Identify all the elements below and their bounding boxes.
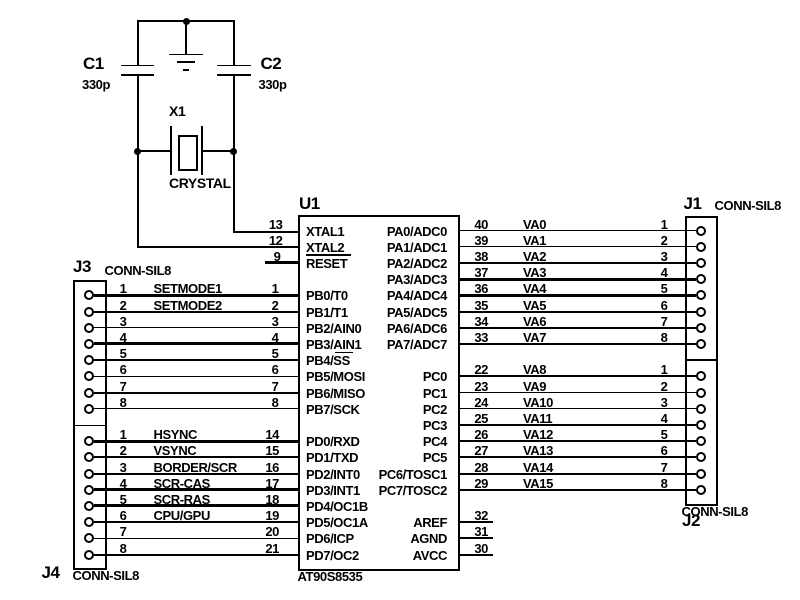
net label VA6 <box>523 315 546 328</box>
U1 pin number 7 <box>245 380 279 393</box>
J3 pin number 2 <box>93 299 127 312</box>
wire stub pin 30 <box>460 554 494 556</box>
U1 pin label PC2 <box>357 403 447 416</box>
wire J4 pin 3 to U1 pin 16 <box>94 473 298 475</box>
label C1 <box>83 55 104 72</box>
J2 pin number 7 <box>634 461 668 474</box>
wire J4 pin 2 to U1 pin 15 <box>94 456 298 458</box>
wire J4 pin 4 to U1 pin 17 <box>94 488 298 491</box>
U1 pin label PD4/OC1B <box>306 500 368 513</box>
U1 pin number 28 <box>454 461 488 474</box>
pin number 9 of U1 <box>247 250 281 263</box>
net label VA9 <box>523 380 546 393</box>
net label VA7 <box>523 331 546 344</box>
J3 pin circle 2 <box>84 307 94 317</box>
U1 pin number 19 <box>245 509 279 522</box>
wire U1 pin 25 to J2 pin 4 net VA11 <box>460 424 696 426</box>
J4 pin number 4 <box>93 477 127 490</box>
U1 pin label PD1/TXD <box>306 451 358 464</box>
U1 pin label PD6/ICP <box>306 532 354 545</box>
net label SETMODE2 <box>154 299 222 312</box>
J3 pin circle 8 <box>84 404 94 414</box>
U1 pin number 17 <box>245 477 279 490</box>
U1 pin label PB0/T0 <box>306 289 348 302</box>
J3 pin circle 4 <box>84 339 94 349</box>
net label VA11 <box>523 412 552 425</box>
wire J3 pin 8 to U1 pin 8 <box>94 408 298 409</box>
wire J4 pin 6 to U1 pin 19 <box>94 521 298 523</box>
wire stub pin 31 <box>460 537 494 539</box>
J1 pin number 2 <box>634 234 668 247</box>
wire C1 top <box>137 20 139 65</box>
U1 pin number 37 <box>454 266 488 279</box>
wire U1 pin 26 to J2 pin 5 net VA12 <box>460 440 696 442</box>
label J3 <box>73 258 91 275</box>
J2 pin number 4 <box>634 412 668 425</box>
type CONN-SIL8 of J1 <box>715 199 781 212</box>
wire XTAL1 horizontal to U1 pin 13 <box>233 231 299 233</box>
U1 pin number 4 <box>245 331 279 344</box>
U1 pin label PA5/ADC5 <box>357 306 447 319</box>
U1 pin number 26 <box>454 428 488 441</box>
net label SCR-CAS <box>154 477 210 490</box>
net label VA1 <box>523 234 546 247</box>
wire C2 top <box>233 20 235 65</box>
value 330p of C1 <box>82 78 110 91</box>
U1 pin label PD0/RXD <box>306 435 360 448</box>
J3 pin number 4 <box>93 331 127 344</box>
J1 pin number 1 <box>634 218 668 231</box>
U1 pin label PB5/MOSI <box>306 370 365 383</box>
J2 pin circle 7 <box>696 469 706 479</box>
type CONN-SIL8 of J4 <box>73 569 139 582</box>
J2 pin circle 3 <box>696 404 706 414</box>
value 330p of C2 <box>259 78 287 91</box>
J3/J4 divider <box>75 425 106 427</box>
ground bar 1 <box>169 54 203 56</box>
U1 pin label PB4/SS <box>306 354 350 367</box>
U1 pin label PC3 <box>357 419 447 432</box>
J2 pin circle 8 <box>696 485 706 495</box>
U1 pin number 22 <box>454 363 488 376</box>
U1 pin label PD3/INT1 <box>306 484 360 497</box>
wire J3 pin 5 to U1 pin 5 <box>94 359 298 361</box>
wire J4 pin 1 to U1 pin 14 <box>94 440 298 443</box>
wire J3 pin 2 to U1 pin 2 <box>94 311 298 313</box>
wire U1 pin 33 to J1 pin 8 net VA7 <box>460 343 696 345</box>
wire ground vertical <box>185 22 187 55</box>
J4 pin number 2 <box>93 444 127 457</box>
J2 pin circle 4 <box>696 420 706 430</box>
ground bar 2 <box>177 61 195 63</box>
wire top horizontal <box>137 20 236 22</box>
U1 pin label PB7/SCK <box>306 403 360 416</box>
wire J3 pin 4 to U1 pin 4 <box>94 342 298 345</box>
net label HSYNC <box>154 428 198 441</box>
J4 pin number 3 <box>93 461 127 474</box>
U1 pin label PC6/TOSC1 <box>357 468 447 481</box>
J2 pin number 6 <box>634 444 668 457</box>
U1 pin label PB2/AIN0 <box>306 322 361 335</box>
J1 pin circle 7 <box>696 323 706 333</box>
capacitor C2 plate top <box>217 65 251 66</box>
net label VA14 <box>523 461 553 474</box>
U1 pin number 38 <box>454 250 488 263</box>
wire J3 pin 7 to U1 pin 7 <box>94 392 298 394</box>
J1 pin number 4 <box>634 266 668 279</box>
wire U1 pin 22 to J2 pin 1 net VA8 <box>460 375 696 377</box>
J2 pin circle 2 <box>696 388 706 398</box>
crystal X1 left plate <box>170 126 172 175</box>
capacitor C2 plate bottom <box>217 74 251 76</box>
net label VA2 <box>523 250 546 263</box>
capacitor C1 plate bottom <box>121 74 155 76</box>
wire U1 pin 29 to J2 pin 8 net VA15 <box>460 489 696 491</box>
U1 pin label PD5/OC1A <box>306 516 368 529</box>
overline for RESET <box>306 254 351 256</box>
label C2 <box>261 55 282 72</box>
net label VA10 <box>523 396 553 409</box>
J4 pin number 7 <box>93 525 127 538</box>
J1 pin circle 2 <box>696 242 706 252</box>
label J2 <box>682 512 700 529</box>
U1 pin label PB1/T1 <box>306 306 348 319</box>
U1 pin label PA2/ADC2 <box>357 257 447 270</box>
J4 pin number 5 <box>93 493 127 506</box>
wire U1 pin 34 to J1 pin 7 net VA6 <box>460 327 696 329</box>
U1 pin label PA0/ADC0 <box>357 225 447 238</box>
wire U1 pin 39 to J1 pin 2 net VA1 <box>460 246 696 248</box>
wire U1 pin 35 to J1 pin 6 net VA5 <box>460 311 696 313</box>
U1 pin label XTAL1 <box>306 225 344 238</box>
J1 pin number 8 <box>634 331 668 344</box>
J1 pin circle 6 <box>696 307 706 317</box>
U1 pin label PB6/MISO <box>306 387 365 400</box>
wire J3 pin 1 to U1 pin 1 <box>94 294 298 297</box>
J1/J2 divider <box>687 359 716 361</box>
J1 pin circle 8 <box>696 339 706 349</box>
label X1 <box>169 104 185 118</box>
J4 pin number 6 <box>93 509 127 522</box>
net label VA0 <box>523 218 546 231</box>
wire C1 to XTAL2 corner vertical <box>137 76 139 248</box>
J3 pin circle 6 <box>84 371 94 381</box>
net label SCR-RAS <box>154 493 210 506</box>
U1 pin number 36 <box>454 282 488 295</box>
J4 pin circle 4 <box>84 485 94 495</box>
net label VA12 <box>523 428 553 441</box>
U1 pin label AREF <box>357 516 447 529</box>
J3 pin circle 7 <box>84 388 94 398</box>
net label VA13 <box>523 444 553 457</box>
net label VA4 <box>523 282 546 295</box>
crystal X1 right plate <box>201 126 203 175</box>
label J4 <box>42 564 60 581</box>
type CONN-SIL8 of J2 <box>682 505 748 518</box>
J4 pin circle 2 <box>84 452 94 462</box>
U1 pin label PC5 <box>357 451 447 464</box>
J4 pin number 8 <box>93 542 127 555</box>
U1 pin label PA3/ADC3 <box>357 273 447 286</box>
net label VA8 <box>523 363 546 376</box>
J2 pin number 1 <box>634 363 668 376</box>
wire J4 pin 5 to U1 pin 18 <box>94 504 298 507</box>
U1 pin label PC7/TOSC2 <box>357 484 447 497</box>
U1 pin label AGND <box>357 532 447 545</box>
U1 pin number 35 <box>454 299 488 312</box>
J2 pin number 2 <box>634 380 668 393</box>
wire U1 pin 40 to J1 pin 1 net VA0 <box>460 230 696 232</box>
wire U1 pin 27 to J2 pin 6 net VA13 <box>460 456 696 458</box>
wire RESET stub pin 9 <box>265 261 298 264</box>
U1 pin number 29 <box>454 477 488 490</box>
J3 pin number 5 <box>93 347 127 360</box>
J3 pin number 7 <box>93 380 127 393</box>
wire U1 pin 38 to J1 pin 3 net VA2 <box>460 262 696 264</box>
J2 pin circle 6 <box>696 452 706 462</box>
wire U1 pin 24 to J2 pin 3 net VA10 <box>460 408 696 410</box>
U1 pin number 40 <box>454 218 488 231</box>
U1 pin number 27 <box>454 444 488 457</box>
U1 pin label PA4/ADC4 <box>357 289 447 302</box>
J3 pin number 1 <box>93 282 127 295</box>
U1 pin label PD2/INT0 <box>306 468 360 481</box>
wire C2 to XTAL1 corner vertical <box>233 76 235 232</box>
U1 pin number 25 <box>454 412 488 425</box>
net label VA3 <box>523 266 546 279</box>
wire J4 pin 7 to U1 pin 20 <box>94 538 298 539</box>
U1 pin number 21 <box>245 542 279 555</box>
J2 pin circle 5 <box>696 436 706 446</box>
U1 pin number 24 <box>454 396 488 409</box>
J1 pin circle 1 <box>696 226 706 236</box>
J4 pin circle 7 <box>84 533 94 543</box>
net label VSYNC <box>154 444 197 457</box>
U1 pin number 14 <box>245 428 279 441</box>
U1 pin number 18 <box>245 493 279 506</box>
U1 pin number 23 <box>454 380 488 393</box>
connector J1/J2 body <box>685 216 718 506</box>
U1 pin number 5 <box>245 347 279 360</box>
U1 pin number 3 <box>245 315 279 328</box>
J1 pin number 6 <box>634 299 668 312</box>
U1 pin number 1 <box>245 282 279 295</box>
pin number 32 of U1 <box>454 509 488 522</box>
J2 pin circle 1 <box>696 371 706 381</box>
junction dot crystal right <box>230 148 237 155</box>
U1 pin label XTAL2 <box>306 241 344 254</box>
net label VA5 <box>523 299 546 312</box>
J3 pin number 8 <box>93 396 127 409</box>
wire XTAL2 horizontal to U1 pin 12 <box>137 246 299 248</box>
J1 pin circle 5 <box>696 290 706 300</box>
J3 pin circle 5 <box>84 355 94 365</box>
wire J4 pin 8 to U1 pin 21 <box>94 554 298 556</box>
wire crystal right lead <box>202 150 234 152</box>
U1 pin number 6 <box>245 363 279 376</box>
wire J3 pin 3 to U1 pin 3 <box>94 327 298 329</box>
J4 pin circle 8 <box>84 550 94 560</box>
U1 pin label AVCC <box>357 549 447 562</box>
J3 pin number 3 <box>93 315 127 328</box>
U1 pin number 8 <box>245 396 279 409</box>
U1 pin label PC1 <box>357 387 447 400</box>
pin number 12 of U1 <box>249 234 283 247</box>
junction dot top <box>183 18 190 25</box>
type CONN-SIL8 of J3 <box>105 264 171 277</box>
U1 pin number 20 <box>245 525 279 538</box>
J4 pin number 1 <box>93 428 127 441</box>
wire crystal left lead <box>138 150 172 152</box>
J4 pin circle 5 <box>84 501 94 511</box>
wire U1 pin 37 to J1 pin 4 net VA3 <box>460 278 696 281</box>
U1 pin label PB3/AIN1 <box>306 338 361 351</box>
crystal X1 body rectangle <box>178 135 199 171</box>
J2 pin number 3 <box>634 396 668 409</box>
U1 pin label RESET <box>306 257 347 270</box>
overline for SS of PB4 <box>335 352 353 354</box>
U1 pin number 34 <box>454 315 488 328</box>
wire stub pin 32 <box>460 521 494 523</box>
U1 pin number 16 <box>245 461 279 474</box>
net label SETMODE1 <box>154 282 222 295</box>
J1 pin number 5 <box>634 282 668 295</box>
value AT90S8535 of U1 <box>298 570 363 583</box>
U1 pin label PD7/OC2 <box>306 549 359 562</box>
ground bar 3 <box>183 69 189 71</box>
junction dot crystal left <box>134 148 141 155</box>
J4 pin circle 6 <box>84 517 94 527</box>
connector J3/J4 body <box>73 280 108 570</box>
label CRYSTAL <box>169 176 231 190</box>
wire U1 pin 23 to J2 pin 2 net VA9 <box>460 392 696 394</box>
J2 pin number 8 <box>634 477 668 490</box>
J3 pin circle 3 <box>84 323 94 333</box>
U1 pin number 2 <box>245 299 279 312</box>
J1 pin number 3 <box>634 250 668 263</box>
net label CPU/GPU <box>154 509 210 522</box>
U1 pin number 15 <box>245 444 279 457</box>
J4 pin circle 1 <box>84 436 94 446</box>
net label VA15 <box>523 477 553 490</box>
U1 pin label PA7/ADC7 <box>357 338 447 351</box>
U1 pin number 33 <box>454 331 488 344</box>
U1 pin number 39 <box>454 234 488 247</box>
net label BORDER/SCR <box>154 461 237 474</box>
U1 pin label PC0 <box>357 370 447 383</box>
J4 pin circle 3 <box>84 469 94 479</box>
pin number 13 of U1 <box>249 218 283 231</box>
wire U1 pin 28 to J2 pin 7 net VA14 <box>460 473 696 475</box>
J1 pin circle 4 <box>696 274 706 284</box>
wire J3 pin 6 to U1 pin 6 <box>94 376 298 377</box>
J1 pin circle 3 <box>696 258 706 268</box>
op-amp U1 body (AT90S8535 MCU) <box>298 215 461 571</box>
pin number 30 of U1 <box>454 542 488 555</box>
U1 pin label PC4 <box>357 435 447 448</box>
J1 pin number 7 <box>634 315 668 328</box>
wire U1 pin 36 to J1 pin 5 net VA4 <box>460 294 696 297</box>
label J1 <box>684 195 702 212</box>
label U1 <box>299 195 320 212</box>
J3 pin circle 1 <box>84 290 94 300</box>
pin number 31 of U1 <box>454 525 488 538</box>
U1 pin label PA1/ADC1 <box>357 241 447 254</box>
J3 pin number 6 <box>93 363 127 376</box>
J2 pin number 5 <box>634 428 668 441</box>
capacitor C1 plate top <box>121 65 155 66</box>
U1 pin label PA6/ADC6 <box>357 322 447 335</box>
